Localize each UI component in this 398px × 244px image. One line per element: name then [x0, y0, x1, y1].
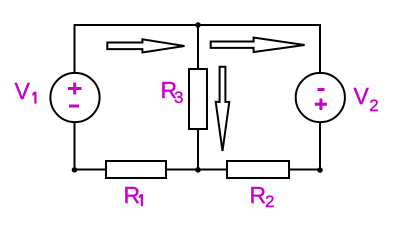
wire middle vertical upper — [197, 25, 199, 70]
voltage source V1 circle — [50, 73, 99, 122]
current arrow I3 (middle, pointing down) — [216, 67, 230, 151]
V2 minus sign — [318, 88, 325, 91]
label R3 — [161, 77, 184, 107]
current arrow I1 (top left, pointing right) — [107, 39, 184, 52]
svg-text:2: 2 — [265, 192, 274, 211]
wire right vertical upper — [319, 24, 321, 74]
svg-text:2: 2 — [369, 96, 378, 115]
svg-text:R: R — [250, 182, 267, 208]
current arrow I2 (top right, pointing right) — [211, 38, 305, 53]
wire bottom right segment — [288, 169, 321, 171]
wire left vertical lower — [74, 122, 76, 171]
label R1 — [124, 182, 144, 208]
wire top horizontal — [74, 24, 322, 26]
label R2 — [250, 182, 275, 211]
wire left vertical upper — [74, 24, 76, 74]
voltage source V2 circle — [296, 73, 345, 122]
junction dot bottom left — [72, 167, 78, 173]
svg-text:V: V — [354, 83, 370, 109]
junction dot bottom middle — [195, 167, 201, 173]
svg-text:3: 3 — [174, 88, 183, 107]
V1 plus sign — [68, 83, 82, 95]
junction dot top middle — [195, 22, 201, 28]
label V1 — [15, 78, 37, 104]
junction dot bottom right — [317, 167, 323, 173]
wire bottom middle segment — [165, 169, 228, 171]
V2 plus sign — [315, 99, 327, 111]
wire middle vertical lower — [197, 129, 199, 171]
svg-text:R: R — [124, 182, 141, 208]
wire right vertical lower — [319, 122, 321, 171]
resistor R2 body — [227, 161, 289, 178]
resistor R3 body — [189, 69, 207, 129]
svg-text:V: V — [15, 78, 31, 104]
wire bottom left segment — [74, 169, 108, 171]
resistor R1 body — [106, 161, 166, 178]
V1 minus sign — [69, 105, 79, 108]
label V2 — [354, 83, 379, 115]
